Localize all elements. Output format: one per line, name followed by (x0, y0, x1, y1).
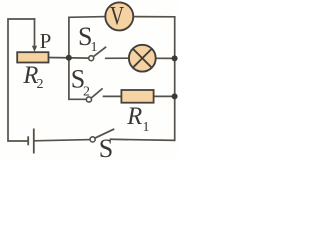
svg-text:R: R (126, 101, 142, 130)
svg-text:S: S (99, 134, 113, 158)
svg-text:V: V (110, 1, 124, 30)
svg-text:1: 1 (91, 40, 98, 55)
svg-text:2: 2 (83, 84, 90, 99)
svg-text:1: 1 (143, 120, 150, 135)
svg-text:P: P (40, 29, 52, 53)
svg-text:2: 2 (37, 77, 44, 92)
